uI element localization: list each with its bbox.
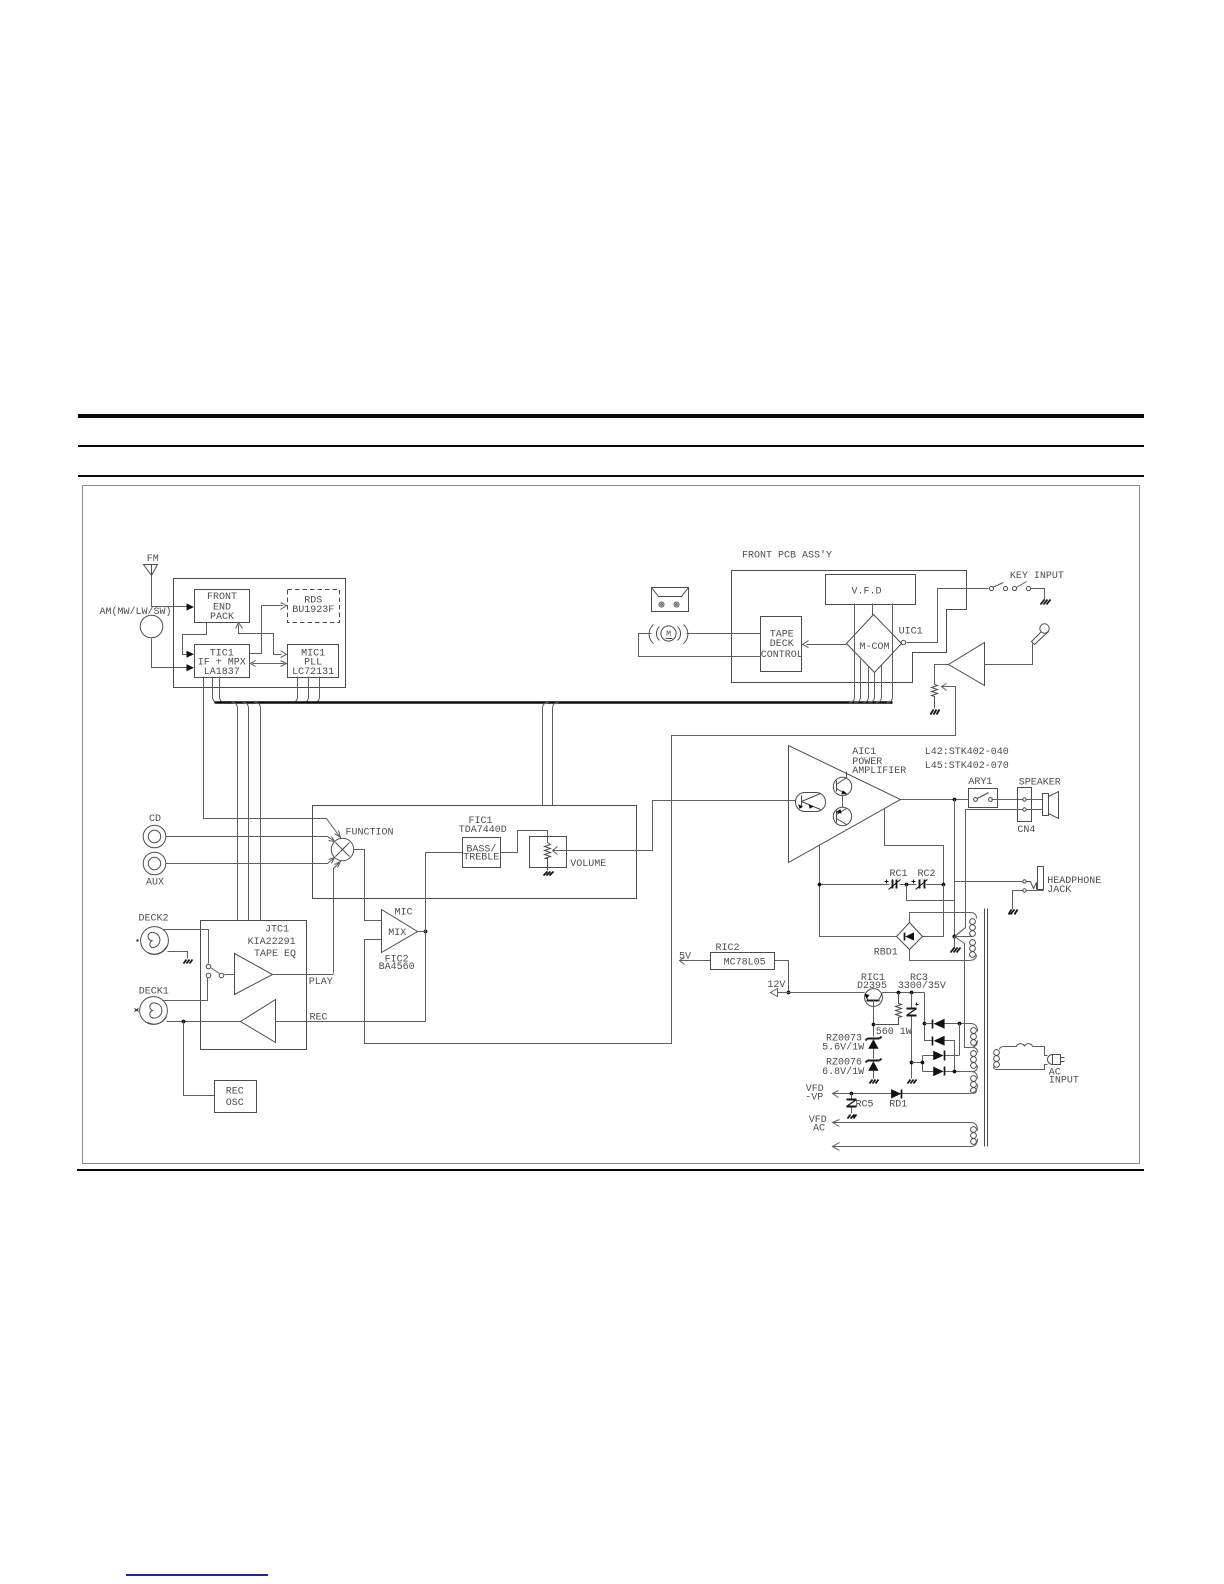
CD jack <box>143 825 166 848</box>
amp transistor Q upper <box>833 772 851 796</box>
arrow VFD AC 2 <box>833 1143 840 1151</box>
arrow 12V out <box>771 989 778 997</box>
wire RIC1 collector rail <box>883 992 925 994</box>
wire play return to function <box>334 863 340 974</box>
wire relay to CN4 <box>992 799 1023 801</box>
wire to headphone tip <box>955 881 1024 883</box>
arrow into RDS <box>281 603 287 610</box>
M-COM output bubble <box>901 640 905 644</box>
wire deck1 to rec osc <box>184 1022 215 1096</box>
ground center tap <box>951 948 961 953</box>
front pcb assy outline <box>732 571 967 683</box>
wire zener link <box>873 1049 875 1059</box>
wire CN4 return to transformer <box>955 810 1023 937</box>
AM loop antenna <box>140 615 163 638</box>
wire M-COM to bus d <box>876 665 882 703</box>
svg-text:BU1923F: BU1923F <box>292 605 334 616</box>
wire 5V from regulator <box>680 960 711 962</box>
mic mix amp FIC2 <box>382 910 418 953</box>
wire VFD-VP line <box>833 1093 969 1095</box>
wire rail right to bridge <box>923 885 944 937</box>
wire mic signal loop to mix input <box>365 687 956 1044</box>
amp transistor Q lower <box>833 807 851 825</box>
TIC1 IF+MPX LA1837 box <box>195 645 250 678</box>
wire amp lower tap a <box>820 845 897 937</box>
wire amp lower tap b <box>885 809 944 885</box>
svg-text:PACK: PACK <box>210 612 234 623</box>
svg-text:CONTROL: CONTROL <box>761 650 803 661</box>
wire microphone to mic amp <box>985 644 1033 665</box>
zener RZ0073 <box>866 1037 882 1049</box>
junction rail at 560 <box>897 991 901 995</box>
svg-text:OSC: OSC <box>226 1098 244 1109</box>
arrow into MIC1 pin <box>281 651 287 658</box>
junction RC5 <box>850 1092 854 1096</box>
speaker icon <box>1043 792 1059 819</box>
wire key input to ground <box>1031 589 1045 600</box>
headphone sleeve contact <box>1023 889 1026 892</box>
fuse <box>1017 1044 1033 1047</box>
wire play amp output <box>273 974 334 976</box>
headphone jack body <box>1038 867 1044 890</box>
svg-text:AM(MW/LW/SW): AM(MW/LW/SW) <box>99 606 171 618</box>
tape deck control box <box>761 617 802 672</box>
svg-text:CD: CD <box>149 814 161 825</box>
junction diode row1 <box>923 1022 927 1026</box>
diode RD1 <box>891 1089 901 1098</box>
arrow VFD AC 1 <box>833 1120 840 1127</box>
headphone tip contact <box>1023 880 1026 883</box>
capacitor RC3 <box>911 993 913 1079</box>
wire motor to tape deck control <box>687 633 761 635</box>
wire bus to FIC1 b <box>553 703 559 806</box>
svg-text:RBD1: RBD1 <box>874 948 898 959</box>
wire 12V rail corner down <box>925 993 933 1041</box>
arrow into function selector top <box>335 831 341 838</box>
ground DECK2 <box>184 960 193 964</box>
svg-text:BA4560: BA4560 <box>379 962 415 973</box>
bridge diode symbol <box>904 933 906 941</box>
wire function output to mix <box>354 850 382 921</box>
wire MIC1 to bus b <box>303 677 309 703</box>
wire headphone sleeve to ground <box>1013 891 1023 910</box>
wire diode row1 <box>925 1024 978 1032</box>
deck2 polarity mark <box>137 940 139 942</box>
svg-text:FRONT PCB ASS'Y: FRONT PCB ASS'Y <box>742 550 832 562</box>
wire CD to function <box>166 837 334 841</box>
ground headphone <box>1009 910 1018 915</box>
arrow into MIC1 <box>281 661 287 667</box>
svg-text:REC: REC <box>309 1013 327 1024</box>
ground zeners <box>870 1080 879 1084</box>
JTC1 block box <box>201 921 307 1050</box>
svg-text:M: M <box>666 630 671 639</box>
diode row1 <box>932 1020 934 1029</box>
AC plug <box>1048 1055 1065 1065</box>
resistor 560 1W <box>874 993 902 1025</box>
wire FM antenna to front end pack <box>152 576 188 607</box>
CN4 connector <box>1018 788 1032 822</box>
svg-text:1W: 1W <box>900 1027 912 1038</box>
arrow into TIC1 pin1 <box>187 651 195 658</box>
arrow up into front end pack <box>236 623 243 629</box>
ground RC3 <box>908 1080 917 1084</box>
wire diode row4 <box>923 1072 978 1079</box>
wire DECK1 to rec amp <box>167 1021 241 1023</box>
rec amp triangle <box>241 1000 276 1043</box>
wire VFD right to bus <box>887 604 893 703</box>
wire DECK2 to ground <box>168 952 188 959</box>
junction rail at RC3 <box>910 991 914 995</box>
wire volume to power amp <box>553 801 796 851</box>
relay ARY1 <box>969 789 998 808</box>
motor M <box>649 625 688 644</box>
wire rail mid to supply node <box>907 885 955 901</box>
svg-text:DECK1: DECK1 <box>139 986 169 997</box>
junction diode row4 <box>953 1070 957 1074</box>
diode row4 <box>933 1067 943 1077</box>
svg-text:560: 560 <box>876 1027 894 1038</box>
ground volume <box>544 872 554 876</box>
arrow 5V out <box>680 958 685 965</box>
junction diode rows left <box>921 1061 925 1065</box>
wire center node diag to rectifier rail <box>955 937 970 1048</box>
capacitor RC1 <box>885 880 901 890</box>
wire RIC1 emitter <box>873 1001 875 1037</box>
key switch contacts <box>989 586 1030 590</box>
wire bus to JTC1 b <box>243 703 249 921</box>
wire bass treble to volume <box>501 831 548 853</box>
svg-text:SPEAKER: SPEAKER <box>1019 777 1061 788</box>
svg-text:RC5: RC5 <box>855 1099 873 1110</box>
volume wiper arrow <box>553 847 558 855</box>
microphone <box>1032 624 1050 645</box>
tuner block outer box <box>174 579 346 688</box>
svg-text:TREBLE: TREBLE <box>463 853 499 864</box>
transformer core <box>985 909 988 1147</box>
svg-text:FUNCTION: FUNCTION <box>345 828 393 839</box>
arrow play into function <box>335 862 341 868</box>
svg-text:KEY INPUT: KEY INPUT <box>1010 571 1064 582</box>
wire M-COM to key input <box>907 589 989 643</box>
wire M-COM to bus b <box>863 667 869 703</box>
transformer secondary lower windings <box>971 1028 977 1094</box>
svg-text:JTC1: JTC1 <box>265 925 289 936</box>
svg-text:MC78L05: MC78L05 <box>724 957 766 968</box>
wire switch to play amp <box>225 974 235 976</box>
wire TIC1 to bus b <box>220 677 226 703</box>
cassette icon <box>652 588 689 612</box>
wire to front end pack AGC and MIC1 <box>239 625 282 655</box>
wire motor return to tape deck control <box>639 634 761 657</box>
svg-text:LA1837: LA1837 <box>204 667 240 678</box>
wire TIC1 to RDS <box>250 606 283 654</box>
svg-text:UIC1: UIC1 <box>899 627 923 638</box>
transformer secondary upper winding <box>970 919 976 958</box>
AUX jack <box>143 852 166 875</box>
bass treble box <box>463 838 501 868</box>
second rule <box>78 445 1144 447</box>
mic amp triangle <box>949 643 985 686</box>
front end pack box <box>195 590 250 623</box>
svg-text:AMPLIFIER: AMPLIFIER <box>852 766 906 777</box>
svg-text:DECK: DECK <box>770 639 794 650</box>
junction rail mid <box>905 883 909 887</box>
ground RC5 <box>848 1115 857 1119</box>
wire MIC1 to bus a <box>292 677 298 703</box>
mic level potentiometer <box>932 685 938 709</box>
wire VFD to M-COM <box>872 604 874 617</box>
wire diode row3 <box>923 1055 960 1057</box>
bottom rule <box>77 1169 1144 1171</box>
transformer primary winding <box>994 1050 1000 1068</box>
wire regulator input from 12V rail <box>775 961 789 993</box>
wire fuse to plug <box>1033 1047 1048 1056</box>
wire RC3 tap to diode rows <box>912 1056 923 1072</box>
pot wiper arrow <box>942 684 947 691</box>
RDS BU1923F dashed box <box>288 590 340 623</box>
wire DECK2 to switch <box>164 930 209 964</box>
MIC1 PLL LC72131 box <box>288 645 339 678</box>
svg-text:TAPE EQ: TAPE EQ <box>254 949 296 960</box>
amp input stage symbol <box>796 793 826 812</box>
wire primary top with fuse <box>1000 1047 1017 1050</box>
volume box <box>530 837 567 868</box>
capacitor RC2 <box>912 880 928 890</box>
play rec switch <box>206 964 224 978</box>
arrow into TIC1 pin2 <box>187 664 195 671</box>
arrow M-COM to tape deck control <box>807 644 847 646</box>
svg-text:FM: FM <box>147 554 159 565</box>
wire M-COM to bus a <box>855 660 861 703</box>
wire TIC1 MIC1 bidirectional <box>253 663 285 665</box>
wire front end pack to TIC1 staircase <box>183 623 207 655</box>
svg-text:KIA22291: KIA22291 <box>248 937 296 948</box>
arrow CD into function <box>329 837 335 842</box>
wires CN4 to speaker <box>1027 800 1043 810</box>
wire DECK1 to switch <box>164 978 208 1001</box>
wire center tap to winding <box>955 936 973 938</box>
function selector circle <box>331 838 353 860</box>
wire center tap to ground <box>954 937 956 948</box>
ground key input <box>1041 600 1051 605</box>
wire VFD left to bus <box>849 604 855 703</box>
junction emitter <box>872 1023 876 1027</box>
junction diode row1 right <box>958 1022 962 1026</box>
wire amp output <box>901 799 969 801</box>
power amp AIC1 triangle <box>789 746 901 863</box>
third rule <box>78 475 1144 477</box>
svg-text:MIC: MIC <box>394 908 412 919</box>
wire TIC1 to bus a <box>213 677 219 703</box>
switch lever <box>211 968 220 974</box>
center tap junction <box>952 934 956 938</box>
DECK1 jack <box>140 997 168 1025</box>
wire diode row2 <box>945 1041 955 1072</box>
footer blue rule <box>126 1574 268 1576</box>
svg-text:ARY1: ARY1 <box>968 777 992 788</box>
junction rail right <box>942 883 946 887</box>
diode row3 <box>933 1051 943 1061</box>
svg-text:VOLUME: VOLUME <box>570 859 606 870</box>
regulator MC78L05 box <box>711 953 775 970</box>
mix output junction <box>424 930 428 934</box>
wire between amp transistors <box>842 796 844 808</box>
arrow VFD-VP <box>833 1091 839 1098</box>
FM antenna <box>144 565 158 576</box>
svg-text:RC1: RC1 <box>889 869 907 880</box>
svg-text:V.F.D: V.F.D <box>851 587 881 598</box>
wire center node diag to CN4 return <box>955 928 966 937</box>
zener RZ0076 <box>866 1059 882 1071</box>
key switch levers <box>993 582 1027 588</box>
svg-text:REC: REC <box>226 1087 244 1098</box>
wire 12V rail to RIC1 <box>778 992 865 994</box>
svg-text:-VP: -VP <box>805 1092 823 1103</box>
wire AUX to function <box>166 859 334 864</box>
wire zener to ground <box>873 1071 875 1079</box>
svg-text:6.8V/1W: 6.8V/1W <box>822 1066 864 1078</box>
control bus <box>215 701 893 704</box>
wire output cap rail <box>820 884 944 886</box>
svg-text:LC72131: LC72131 <box>292 667 334 678</box>
junction amp output <box>953 798 957 802</box>
headphone spring contact <box>1027 882 1037 890</box>
wire rec line <box>276 1021 426 1023</box>
wire plug bottom return <box>994 1065 1048 1070</box>
svg-text:L42:STK402-040: L42:STK402-040 <box>925 747 1009 758</box>
wire TIC1 out to function selector <box>204 677 340 837</box>
svg-text:TDA7440D: TDA7440D <box>459 825 507 836</box>
volume potentiometer <box>545 843 551 871</box>
junction 12V <box>787 991 791 995</box>
svg-text:RC2: RC2 <box>917 869 935 880</box>
M-COM diamond UIC1 <box>847 615 902 673</box>
FIC1 block box <box>313 806 637 899</box>
rec osc box <box>215 1081 257 1113</box>
winding tap joins <box>969 1041 978 1094</box>
junction RC3 rail tap <box>910 1061 914 1065</box>
wire mix output <box>418 853 426 1022</box>
svg-text:INPUT: INPUT <box>1049 1076 1079 1087</box>
arrow into TIC1 <box>251 661 256 667</box>
VFD box <box>826 575 916 605</box>
wire bus to FIC1 a <box>543 703 549 806</box>
svg-text:L45:STK402-070: L45:STK402-070 <box>925 761 1009 772</box>
wire row1 to row3 <box>959 1024 961 1056</box>
svg-text:AC: AC <box>813 1124 825 1135</box>
wire VFD AC line 1 <box>833 1123 978 1131</box>
capacitor RC5 <box>851 1094 853 1114</box>
wire mic amp to level pot <box>935 665 949 685</box>
deck1 polarity mark <box>135 1009 139 1012</box>
svg-text:5.6V/1W: 5.6V/1W <box>822 1042 864 1054</box>
wire bus to JTC1 c <box>255 703 261 921</box>
wire MIC1 to bus c <box>314 677 320 703</box>
svg-text:PLAY: PLAY <box>309 977 333 988</box>
transistor RIC1 <box>865 989 883 1007</box>
ground mic pot <box>931 710 940 715</box>
diagram frame <box>83 486 1140 1164</box>
diode row2 <box>932 1037 934 1046</box>
svg-text:JACK: JACK <box>1047 885 1071 896</box>
wire AM antenna to TIC1 <box>152 639 188 668</box>
arrow AUX into function <box>329 858 335 864</box>
svg-text:DECK2: DECK2 <box>138 914 168 925</box>
transformer heater winding <box>971 1127 977 1145</box>
DECK2 jack <box>141 927 169 955</box>
junction deck1 <box>182 1020 186 1024</box>
wire bridge top to transformer <box>910 913 977 923</box>
wire VFD AC line 2 <box>833 1139 978 1147</box>
arrow into front end pack <box>187 603 195 610</box>
wire M-COM to bus c <box>869 672 875 703</box>
bridge rectifier RBD1 <box>897 923 923 950</box>
wire sleeve to body <box>1027 890 1044 892</box>
svg-text:RD1: RD1 <box>889 1099 907 1110</box>
play amp triangle <box>235 954 273 995</box>
svg-text:3300/35V: 3300/35V <box>898 980 946 992</box>
wire to bass treble <box>426 852 463 854</box>
wire bridge bottom to transformer <box>910 950 977 961</box>
top heavy rule <box>78 414 1144 418</box>
svg-text:CN4: CN4 <box>1017 825 1035 836</box>
svg-text:M-COM: M-COM <box>859 642 889 653</box>
svg-text:MIX: MIX <box>388 928 406 939</box>
svg-text:AUX: AUX <box>146 878 164 889</box>
svg-text:D2395: D2395 <box>857 981 887 992</box>
wire amp output down to supply node <box>954 800 956 937</box>
junction rail left <box>818 883 822 887</box>
wire bus to JTC1 a <box>232 703 238 921</box>
